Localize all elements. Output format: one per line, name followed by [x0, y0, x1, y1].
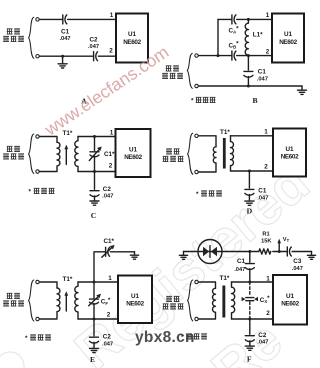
junction: ground tap (A): [61, 55, 64, 58]
brace: input source brace (B): [187, 53, 192, 88]
svg-text:ybx8.cn: ybx8.cn: [135, 329, 195, 346]
wire: junction down to C1 (F): [249, 252, 251, 263]
variable capacitor C1* (C): [89, 137, 102, 172]
wire: pin2 node down to C1 (B): [247, 56, 249, 70]
svg-text:.047: .047: [257, 77, 268, 83]
junction: C1* top (C): [93, 135, 96, 138]
svg-text:F: F: [247, 355, 252, 364]
node: input terminal top (D): [195, 134, 198, 137]
junction: C2 tap (E): [93, 318, 96, 321]
node: input terminal top (E): [36, 280, 39, 283]
node: input terminal bottom (E): [36, 317, 39, 320]
svg-text:VT: VT: [283, 237, 290, 243]
note: *see text (F): [181, 334, 207, 341]
junction: coil top (B): [247, 18, 250, 21]
wire: secondary bottom rail to pin 2 (E): [78, 318, 118, 320]
note: *see text (C): [29, 188, 55, 195]
label: 信号源 (B): [162, 73, 183, 78]
wire: secondary top rail to pin 1 (E): [78, 281, 118, 283]
junction: C1/CX tap top (F): [248, 281, 251, 284]
wire: bottom terminal to C2 (A): [39, 55, 93, 57]
transformer T1* secondary (F): [232, 282, 235, 319]
svg-text:2: 2: [266, 48, 270, 55]
op-amp/mixer U1 NE602 box (F): [273, 275, 307, 325]
label: 信号源 (A): [3, 36, 24, 41]
svg-text:*: *: [29, 189, 32, 196]
brace: input source brace (D): [188, 133, 193, 174]
op-amp/mixer U1 NE602 box (C): [116, 129, 151, 177]
junction: C1* bottom (C): [93, 170, 96, 173]
wire: C2 to ground (C): [94, 196, 96, 201]
ground (A): [58, 56, 67, 68]
svg-text:CA*: CA*: [229, 26, 240, 35]
svg-text:1: 1: [266, 12, 270, 19]
brace: input source brace (A): [29, 17, 34, 58]
wire: pin2 rail down to C2 (C): [94, 172, 96, 190]
op-amp/mixer U1 NE602 box (D): [273, 129, 306, 177]
svg-text:C2: C2: [89, 37, 98, 44]
svg-text:2: 2: [266, 310, 270, 317]
wire: C1* to ground (E): [110, 251, 134, 253]
ground (F, left of varactor): [179, 252, 187, 260]
svg-text:C2: C2: [258, 332, 267, 339]
svg-text:CX*: CX*: [260, 295, 270, 304]
junction: C1 tap (F): [248, 250, 251, 253]
node: input terminal bottom (D): [195, 170, 198, 173]
wire: secondary bottom rail to pin 2 (F): [232, 318, 274, 320]
node: input terminal bottom (A): [36, 55, 39, 58]
wire: top terminal to CB (B): [198, 55, 231, 57]
svg-text:15K: 15K: [261, 238, 272, 244]
brace: input source brace (F): [188, 280, 193, 321]
capacitor C1 (D): [245, 189, 254, 195]
ground (C): [90, 201, 99, 205]
wire: secondary top rail to pin 1 (D): [231, 135, 274, 137]
wire: secondary top rail to pin 1 (C): [78, 136, 116, 138]
svg-text:.047: .047: [59, 36, 70, 42]
label: 信号源 (F): [163, 304, 184, 309]
svg-text:2: 2: [107, 311, 111, 318]
ground (E, top right): [130, 252, 138, 259]
svg-text:1: 1: [110, 12, 114, 19]
label: 接至 (B): [166, 66, 179, 71]
svg-text:U1: U1: [131, 293, 140, 300]
transformer T1* primary (E): [39, 288, 60, 319]
wire: C1 to ground (D): [248, 195, 250, 201]
transformer T1* secondary (E): [75, 282, 78, 319]
transformer T1* primary (C): [39, 142, 60, 171]
svg-text:T1*: T1*: [220, 275, 230, 282]
transformer T1* secondary (D): [231, 136, 234, 171]
svg-text:.047: .047: [88, 44, 99, 50]
svg-text:B: B: [252, 96, 257, 105]
label: 信号源 (D): [163, 156, 184, 161]
tuning arrow (C): [64, 145, 68, 165]
wire: top terminal to T1 primary (F): [198, 282, 215, 288]
capacitor CB* (B): [232, 51, 236, 60]
junction: C1 bottom (B): [247, 85, 250, 88]
label: 接至 (A): [7, 29, 20, 34]
svg-text:C2: C2: [103, 333, 112, 340]
wire: rail down to C2 (E): [93, 319, 95, 336]
wire: varactor to R1 (F): [222, 251, 259, 253]
svg-text:.047: .047: [234, 267, 245, 273]
junction: CX tap bottom (F): [248, 318, 251, 321]
transformer core (D): [223, 138, 226, 169]
wire: bottom terminal to ground (B): [198, 85, 302, 87]
wire: secondary top rail to pin 1 (F): [232, 281, 274, 283]
node: input terminal bottom (B): [195, 84, 198, 87]
wire: secondary bottom rail to pin 2 (C): [78, 171, 116, 173]
node: input terminal bottom (F): [195, 317, 198, 320]
wire: CB to pin 2 (B): [237, 55, 272, 57]
svg-text:U1: U1: [284, 31, 293, 38]
svg-text:1: 1: [110, 130, 114, 137]
node: input terminal bottom (C): [36, 170, 39, 173]
wire: C1 to top rail (F): [249, 269, 251, 282]
variable capacitor CX* (F), dashed branch: [242, 282, 258, 319]
svg-text:C1: C1: [258, 188, 267, 195]
svg-text:U1: U1: [128, 31, 137, 38]
transformer T1* secondary (C): [75, 137, 78, 172]
ground (E bottom): [90, 348, 99, 352]
svg-text:C1*: C1*: [104, 238, 115, 245]
svg-text:U1: U1: [286, 293, 295, 300]
svg-text:CB*: CB*: [229, 41, 240, 50]
ground (F bottom): [245, 346, 254, 350]
svg-text:C2: C2: [103, 186, 112, 193]
ground (B): [298, 86, 307, 94]
svg-text:.047: .047: [257, 340, 268, 346]
svg-text:C1: C1: [237, 258, 246, 265]
wire: top terminal to T1 primary (D): [198, 136, 216, 147]
svg-text:U1: U1: [129, 147, 138, 154]
wire: ground to varactor (F): [184, 251, 199, 253]
capacitor C3 (F): [287, 247, 291, 256]
svg-text:*: *: [25, 335, 28, 342]
svg-text:C3: C3: [293, 258, 302, 265]
resistor R1 (F): [259, 249, 271, 254]
svg-text:NE602: NE602: [281, 301, 299, 308]
wire: left vertical column (B): [217, 19, 219, 55]
wire: riser up and across to C1* (E): [94, 252, 105, 282]
svg-text:.047: .047: [292, 266, 303, 272]
wire: C2 to pin 2 (A): [98, 55, 116, 57]
capacitor C2 (C): [90, 191, 99, 197]
svg-text:NE602: NE602: [279, 39, 297, 46]
wire: C1 to pin 1 (A): [68, 18, 116, 20]
wire: C2 to ground (E): [93, 342, 95, 348]
wire: top terminal to T1 primary (C): [39, 137, 57, 143]
wire: C3 to ground (F): [292, 251, 311, 253]
capacitor C2 (F): [245, 336, 254, 342]
wire: C1 to bottom wire (B): [247, 77, 249, 86]
transformer core (F): [222, 286, 225, 318]
wire: rail down to C2 (F): [249, 319, 251, 334]
ground (D): [245, 201, 254, 205]
svg-text:1: 1: [264, 129, 268, 136]
svg-text:U1: U1: [285, 146, 294, 153]
label: 接至 (E): [7, 293, 20, 298]
svg-text:.047: .047: [102, 194, 113, 200]
wire: C2 to ground (F): [249, 341, 251, 346]
capacitor C1 (B): [244, 71, 253, 77]
variable capacitor C1* (E): [102, 245, 115, 257]
inductor L1* (B): [245, 19, 248, 55]
brace: input source brace (E): [29, 280, 34, 321]
node: input terminal top (C): [36, 135, 39, 138]
svg-text:*: *: [196, 191, 199, 198]
wire: R1 to C3 (F): [273, 251, 287, 253]
svg-text:C1*: C1*: [104, 151, 115, 158]
svg-text:E: E: [90, 355, 95, 364]
svg-text:T1*: T1*: [63, 276, 73, 283]
label: 接至 (D): [166, 149, 179, 154]
junction: VT tap (F): [278, 250, 281, 253]
note: *see text (E): [25, 335, 51, 342]
capacitor C1 (F): [245, 264, 254, 270]
svg-text:NE602: NE602: [281, 154, 299, 161]
svg-text:1: 1: [266, 276, 270, 283]
wire: rail down to C1 (D): [248, 171, 250, 188]
node: input terminal top (B): [195, 54, 198, 57]
svg-text:2: 2: [109, 163, 113, 170]
wire: CA to pin 1 (B): [237, 18, 272, 20]
junction: coil bottom (B): [247, 54, 250, 57]
node: VT arrow (F): [277, 239, 281, 252]
svg-text:1: 1: [108, 275, 112, 282]
svg-text:C1: C1: [61, 29, 70, 36]
transformer T1* primary (F): [198, 288, 215, 319]
svg-text:C: C: [91, 211, 96, 220]
svg-text:NE602: NE602: [126, 301, 144, 308]
label: 信号源 (E): [3, 301, 24, 306]
svg-text:.047: .047: [102, 341, 113, 347]
svg-text:R1: R1: [262, 231, 269, 237]
varactor diode pair (F): [198, 240, 222, 264]
label: 接至 (F): [166, 296, 179, 301]
variable capacitor CF* (E): [89, 282, 101, 319]
op-amp/mixer U1 NE602 box (A): [116, 14, 148, 63]
svg-text:2: 2: [264, 163, 268, 170]
svg-text:2: 2: [109, 48, 113, 55]
watermark: giant outline "Registered": [0, 151, 320, 368]
label: 信号源 (C): [3, 154, 24, 159]
op-amp/mixer U1 NE602 box (E): [118, 276, 152, 324]
svg-text:T1*: T1*: [220, 129, 230, 136]
node: input terminal top (F): [195, 280, 198, 283]
op-amp/mixer U1 NE602 box (B): [272, 14, 304, 63]
brace: input source brace (C): [29, 134, 34, 174]
capacitor C2 (A): [94, 52, 98, 61]
note: *see text (B): [191, 97, 216, 104]
capacitor C1 (A): [63, 15, 67, 24]
label: 接至 (C): [7, 146, 20, 151]
svg-text:NE602: NE602: [124, 154, 142, 161]
junction: left column joins input (B): [217, 54, 220, 57]
wire: top rail to CA (B): [218, 18, 232, 20]
ground (F, right of C3): [307, 252, 315, 260]
wire: top terminal to C1 (A): [39, 18, 62, 20]
node: input terminal top (A): [36, 18, 39, 21]
wire: secondary bottom rail to pin 2 (D): [231, 170, 274, 172]
transformer T1* primary (D): [198, 147, 216, 172]
svg-text:NE602: NE602: [123, 39, 141, 46]
tuning arrow (E): [64, 291, 68, 311]
svg-text:D: D: [247, 207, 253, 216]
svg-text:.047: .047: [257, 196, 268, 202]
note: *see text (D): [196, 191, 222, 198]
capacitor CA* (B): [232, 15, 236, 24]
svg-text:C1: C1: [258, 69, 267, 76]
capacitor C2 (E): [90, 337, 99, 343]
junction: riser tap (E): [93, 281, 96, 284]
svg-text:L1*: L1*: [253, 31, 263, 38]
svg-text:*: *: [191, 98, 194, 105]
junction: C1 tap (D): [248, 170, 251, 173]
wire: top terminal to T1 primary (E): [39, 282, 57, 288]
